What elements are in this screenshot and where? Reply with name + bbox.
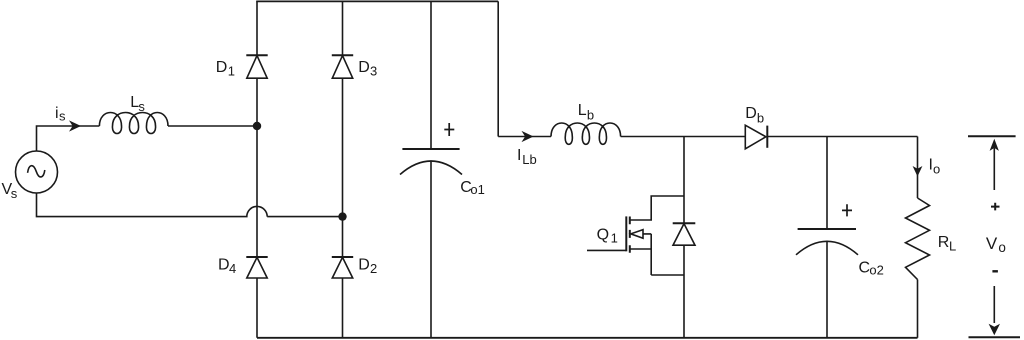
Vo down arrow: [989, 286, 1000, 335]
svg-text:o2: o2: [869, 263, 883, 278]
wire left bridge leg: [256, 1, 258, 337]
svg-text:b: b: [757, 111, 764, 126]
svg-text:Q: Q: [597, 226, 609, 243]
arrow Io: [913, 166, 923, 177]
arrow is: [69, 120, 81, 131]
svg-text:3: 3: [370, 64, 377, 79]
svg-text:C: C: [859, 260, 871, 277]
capacitor Co2: [796, 229, 858, 255]
Vo up arrow: [990, 139, 999, 190]
plus sign Vo: [991, 203, 1000, 211]
svg-text:o: o: [933, 161, 940, 176]
diode D4: [246, 257, 267, 278]
svg-text:4: 4: [229, 261, 236, 276]
svg-text:D: D: [218, 256, 230, 273]
transistor Q1 (MOSFET): [587, 196, 684, 275]
svg-text:s: s: [11, 186, 18, 201]
svg-text:b: b: [587, 107, 594, 122]
svg-text:D: D: [358, 256, 370, 273]
wire mosfet branch: [683, 137, 685, 338]
svg-text:s: s: [138, 99, 145, 114]
svg-text:L: L: [578, 102, 587, 119]
wire right drop from top rail: [497, 1, 499, 136]
svg-text:1: 1: [228, 63, 235, 78]
wire RL leg lower: [917, 280, 919, 338]
resistor RL: [906, 198, 930, 280]
Vo top bar: [968, 135, 1016, 137]
wire top rail: [256, 0, 498, 2]
node A junction dot (Ls to bridge): [253, 122, 261, 130]
svg-text:D: D: [358, 59, 370, 76]
diode D3: [332, 55, 353, 78]
body diode of Q1: [673, 223, 696, 245]
svg-text:o1: o1: [470, 182, 484, 197]
svg-text:D: D: [216, 59, 228, 76]
wire Vs top left: [37, 126, 100, 151]
wire Co2 leg lower: [826, 242, 828, 338]
inductor Lb: [551, 123, 621, 144]
wire boost horizontal mid: [621, 136, 746, 138]
diode Db: [745, 125, 767, 149]
plus sign Co1: [444, 123, 454, 136]
svg-text:2: 2: [370, 261, 377, 276]
svg-text:V: V: [986, 234, 998, 253]
diode D2: [332, 257, 353, 278]
minus sign Vo: [992, 270, 998, 272]
wire Co1 leg lower: [430, 161, 432, 338]
diode D1: [246, 55, 267, 78]
wire boost horizontal left: [498, 136, 551, 138]
ac source Vs: [16, 151, 58, 193]
svg-text:L: L: [949, 239, 956, 254]
inductor Ls: [99, 113, 168, 134]
wire RL leg upper: [917, 137, 919, 199]
wire Co1 leg upper: [430, 1, 432, 149]
wire right bridge leg: [342, 1, 344, 337]
Vo bottom bar: [969, 336, 1021, 338]
svg-text:Lb: Lb: [522, 152, 536, 167]
arrow ILb: [522, 131, 534, 142]
wire Vs top right: [168, 125, 257, 127]
svg-text:R: R: [938, 234, 950, 251]
svg-text:I: I: [517, 147, 521, 164]
wire Vs bottom with hop: [37, 193, 343, 217]
wire boost horizontal right: [767, 136, 917, 138]
wire Co2 leg upper: [826, 137, 828, 230]
svg-text:1: 1: [611, 230, 618, 245]
svg-text:s: s: [59, 108, 66, 123]
svg-text:o: o: [998, 240, 1006, 255]
node B junction dot (Vs to bridge): [338, 212, 346, 220]
wire bottom rail: [257, 337, 918, 339]
capacitor Co1: [400, 149, 462, 175]
svg-text:D: D: [745, 105, 757, 122]
plus sign Co2: [842, 204, 852, 216]
